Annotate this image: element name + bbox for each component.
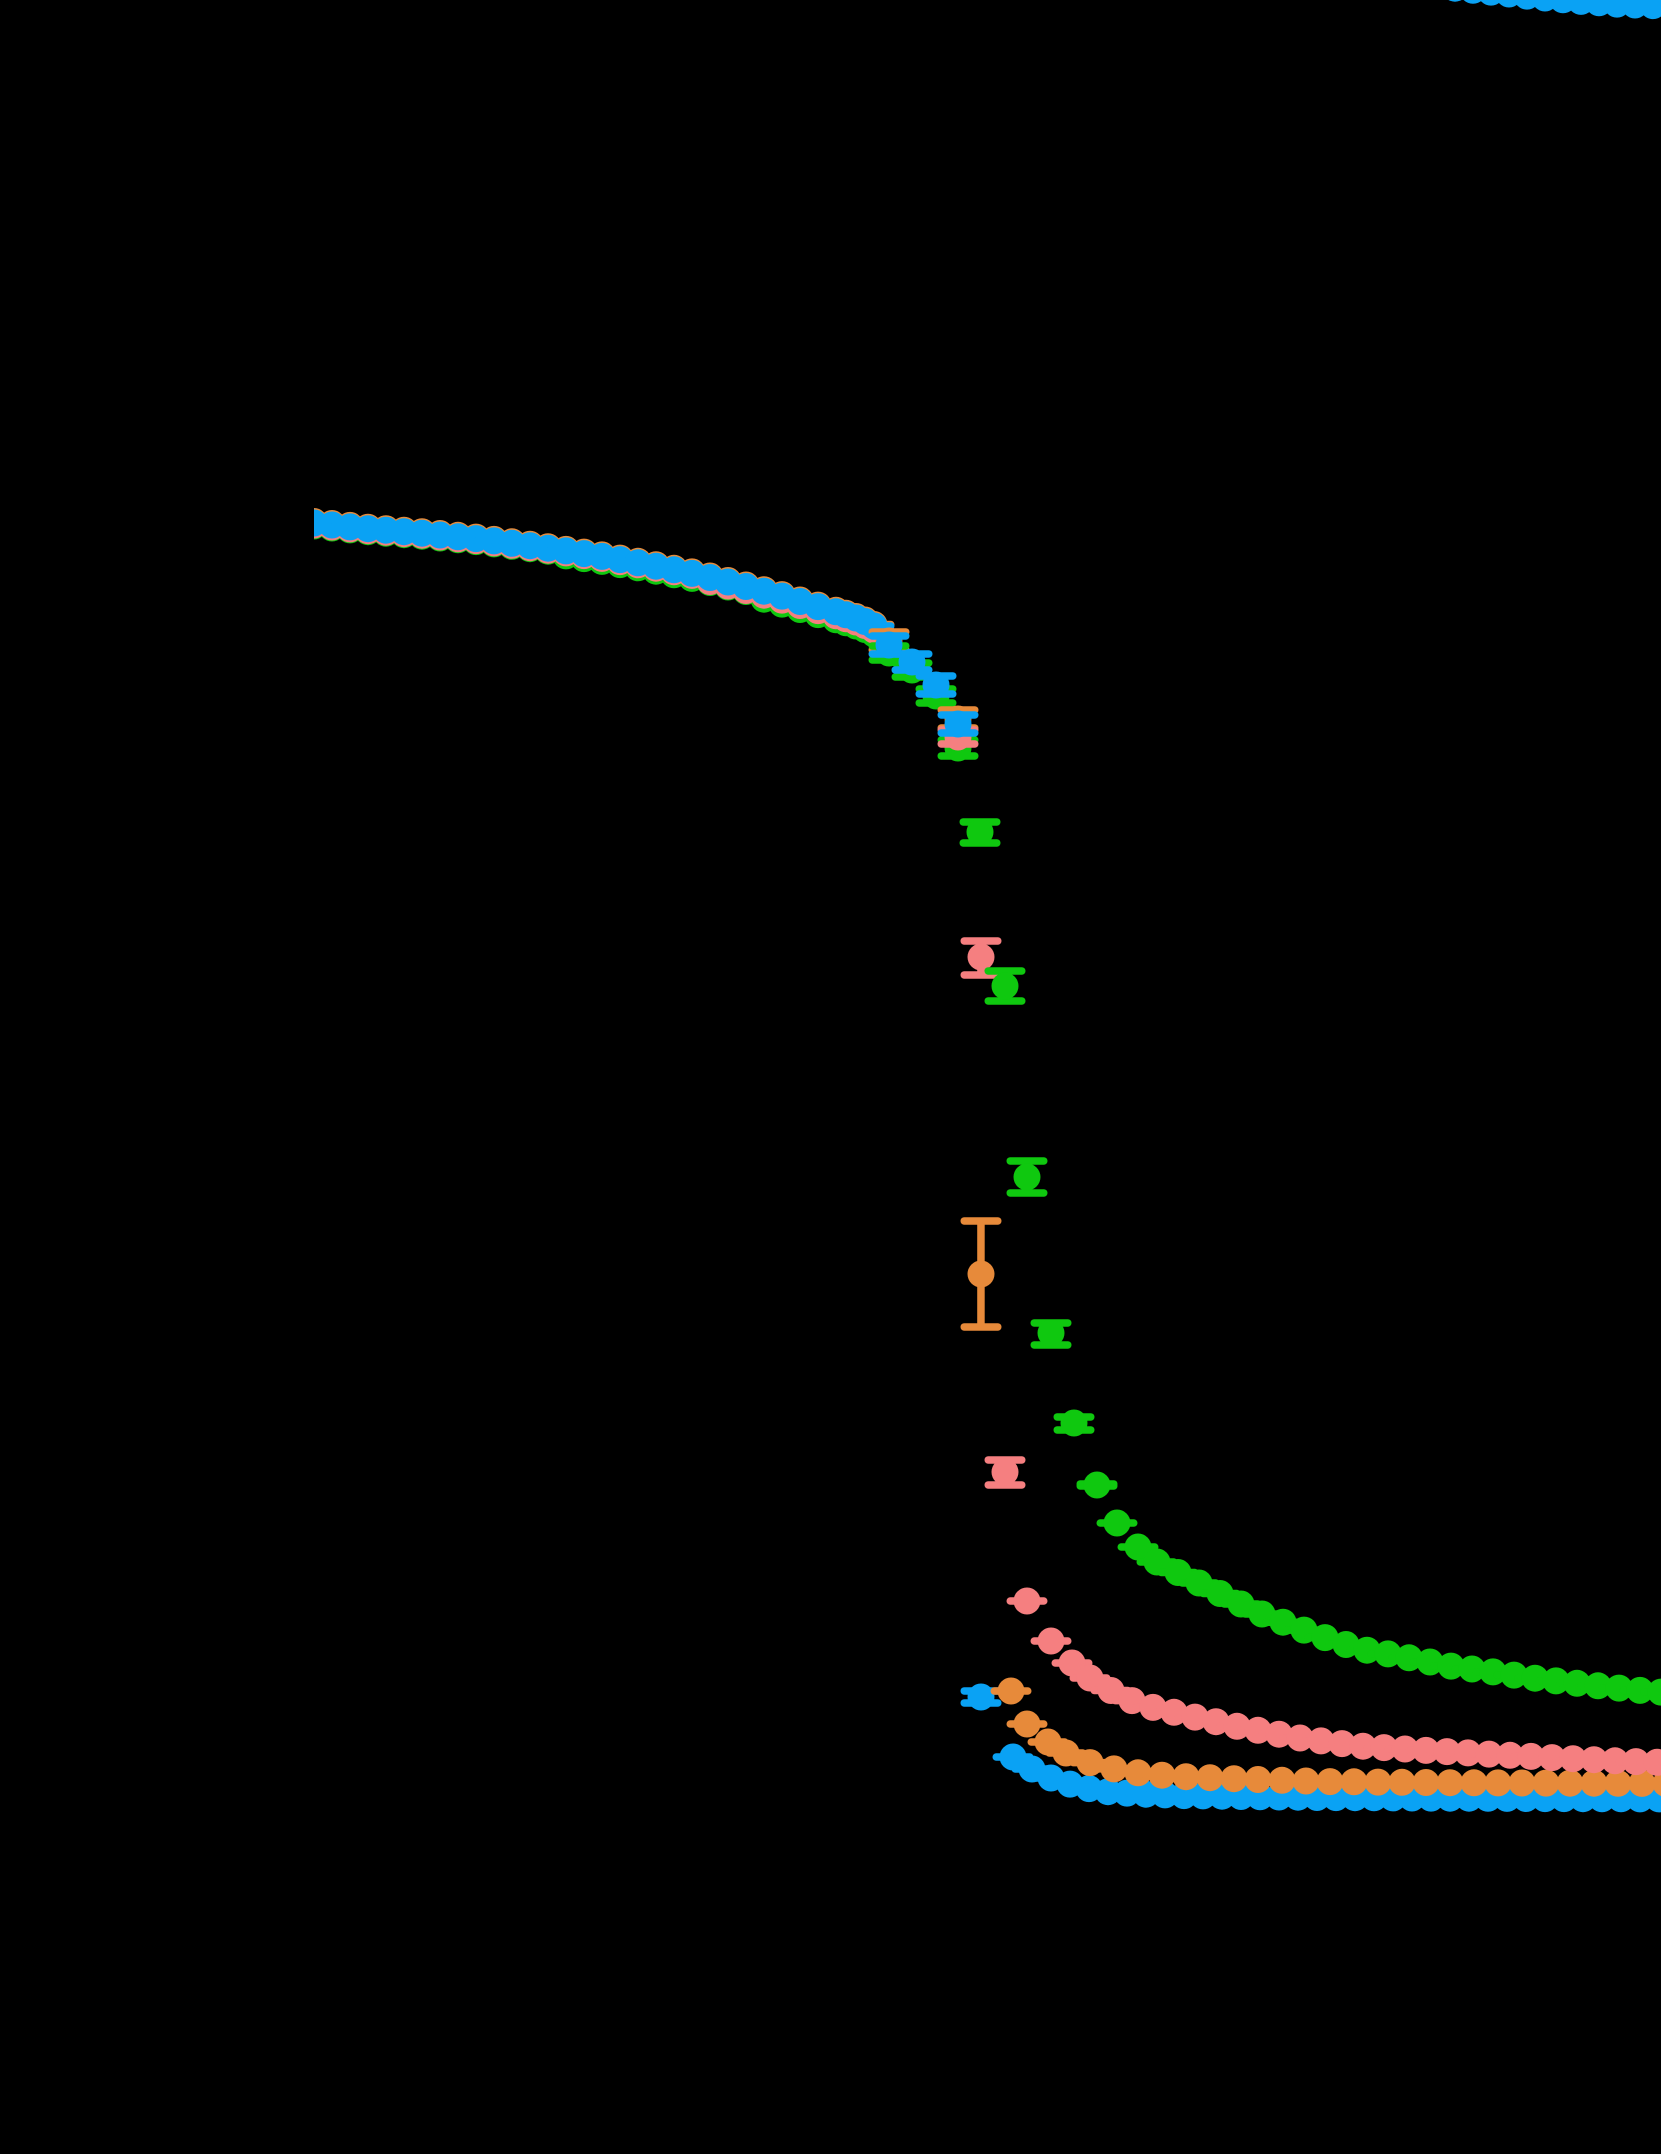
top-right blue curve band (clipped at image top) — [1424, 0, 1661, 20]
green error-bar point (1005,986) — [985, 967, 1026, 1005]
green error-bar point (980,832) — [960, 818, 1001, 847]
upper-band tail cluster at x=958 — [938, 706, 979, 762]
orange error-bar point (981,1274) — [961, 1217, 1002, 1331]
upper-band tail cluster at x=936 — [916, 672, 957, 710]
green error-bar point (1027,1177) — [1007, 1157, 1048, 1197]
lower green curve chain — [1137, 1549, 1661, 1706]
upper band: blue series (drawn on top) — [294, 510, 895, 640]
upper band: green series (bottom fringe) — [294, 513, 895, 648]
pink error-bar point (1005,1472) — [985, 1456, 1026, 1489]
upper-band tail cluster at x=912 — [892, 649, 933, 684]
lower pink curve chain — [1070, 1665, 1661, 1776]
pink error-bar point (981,957) — [961, 937, 1002, 979]
lower pink curve: leading dots — [1007, 1588, 1093, 1677]
green error-bar point (1074,1423) — [1054, 1410, 1095, 1437]
upper-band tail cluster at x=889 — [869, 628, 910, 667]
lower orange curve: leading dots — [991, 1678, 1069, 1756]
lower green curve: leading error-bar dots — [1077, 1472, 1159, 1561]
lower blue curve chain — [993, 1744, 1661, 1813]
upper band: orange series (mostly hidden) — [294, 508, 895, 638]
lower orange curve chain — [1046, 1740, 1661, 1798]
green error-bar point (1051,1333) — [1031, 1319, 1072, 1349]
upper band: pink series (fringe) — [294, 512, 895, 644]
lower blue curve: leading error-bar point — [961, 1684, 1002, 1711]
